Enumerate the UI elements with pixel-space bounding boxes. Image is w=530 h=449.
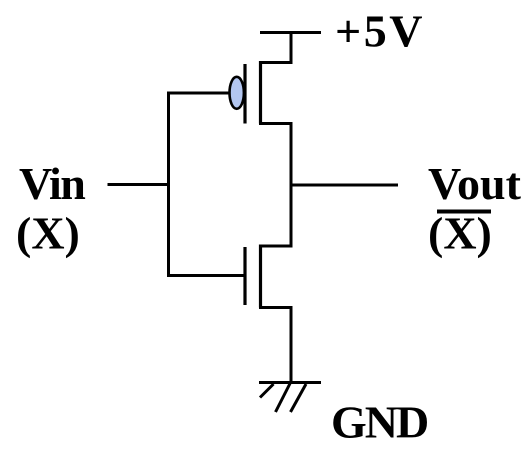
power rail +5V: [260, 31, 321, 34]
wire: input vertical bus: [167, 92, 170, 278]
wire: +5V rail to PMOS source: [259, 33, 291, 63]
transistor Q2 NMOS channel bar: [259, 245, 262, 308]
wire: output node to NMOS drain: [259, 184, 291, 246]
wire: gate wire to NMOS gate: [167, 274, 245, 277]
ground: [259, 383, 321, 413]
svg-text:Vin: Vin: [19, 158, 85, 209]
node Vin input wire: [108, 183, 171, 186]
svg-text:(X): (X): [16, 208, 80, 259]
transistor Q1 PMOS channel bar: [259, 61, 262, 124]
transistor Q1 PMOS gate bar: [243, 64, 246, 124]
svg-text:Vout: Vout: [428, 158, 522, 209]
overline over X: [437, 210, 491, 214]
transistor Q2 NMOS gate bar: [243, 247, 246, 305]
svg-text:(X): (X): [428, 208, 492, 259]
svg-text:GND: GND: [331, 397, 427, 448]
transistor Q1 PMOS gate bubble: [230, 77, 244, 109]
node Vout output wire: [290, 184, 399, 187]
wire: gate wire to PMOS bubble: [167, 92, 230, 95]
wire: PMOS drain to output node: [259, 124, 291, 187]
svg-text:+5V: +5V: [335, 6, 425, 57]
wire: NMOS source to ground: [259, 308, 291, 383]
